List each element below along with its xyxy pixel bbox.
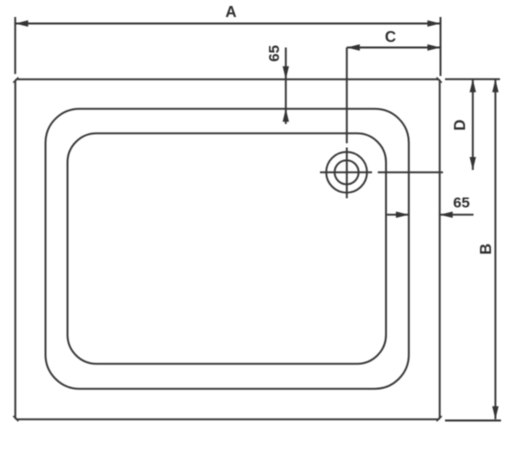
corner tick top-right xyxy=(437,77,442,82)
dimension 65 right lines xyxy=(387,214,474,216)
dimension D line xyxy=(472,79,474,170)
tray inner rim edge xyxy=(46,109,409,389)
arrowhead A right xyxy=(427,20,440,26)
arrowhead 65 right pointing-right xyxy=(396,212,409,218)
arrowhead 65 top down xyxy=(283,66,289,79)
drain horizontal centerline xyxy=(320,171,443,173)
corner tick bottom-left xyxy=(13,416,18,421)
arrowhead B up xyxy=(492,79,498,92)
drain vertical centerline xyxy=(346,48,348,199)
basin floor edge xyxy=(68,133,387,363)
arrowhead 65 right pointing-left xyxy=(440,212,453,218)
svg-text:D: D xyxy=(452,119,469,130)
dimension A / C right extension line xyxy=(440,17,442,76)
svg-text:65: 65 xyxy=(453,195,470,212)
svg-text:65: 65 xyxy=(266,45,283,62)
svg-text:C: C xyxy=(385,29,396,46)
arrowhead A left xyxy=(15,20,28,26)
right bottom extension line xyxy=(445,420,501,422)
drain outer circle xyxy=(326,152,367,193)
dimension 65 top line xyxy=(285,48,287,125)
arrowhead C left xyxy=(347,44,360,50)
arrowhead D up xyxy=(470,79,476,92)
svg-text:A: A xyxy=(225,4,236,21)
arrowhead D down xyxy=(470,157,476,170)
arrowhead B down xyxy=(492,406,498,419)
arrowhead 65 top up xyxy=(283,109,289,122)
drain inner circle xyxy=(335,160,359,184)
tray outer outline xyxy=(15,79,439,419)
right top extension line xyxy=(445,78,500,80)
corner tick bottom-right xyxy=(437,416,442,421)
arrowhead C right xyxy=(427,44,440,50)
dimension A left extension line xyxy=(14,17,16,74)
dimension A line xyxy=(15,23,440,25)
corner tick top-left xyxy=(13,77,18,82)
dimension C line xyxy=(347,47,441,49)
dimension B line xyxy=(494,79,496,419)
svg-text:B: B xyxy=(478,243,495,254)
